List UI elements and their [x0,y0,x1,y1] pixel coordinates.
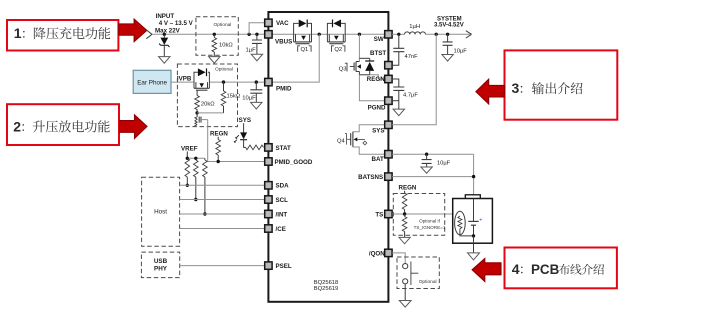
pin TS [385,210,392,217]
svg-text:/CE: /CE [276,226,286,233]
svg-text:SW: SW [374,36,384,43]
svg-text:REGN: REGN [399,185,417,192]
resistor pullup SDA [185,158,190,177]
node SW tap for Q3 [358,33,361,36]
svg-text:STAT: STAT [276,145,291,152]
svg-text:PMID_GOOD: PMID_GOOD [275,159,313,166]
pin CE [265,225,272,232]
svg-text:10µF: 10µF [454,49,468,55]
ground under TS [399,237,410,243]
pin STAT [265,144,272,151]
optional dashed box (earphone FET) [177,64,237,127]
svg-text:VREF: VREF [181,145,198,152]
svg-text:3: 3 [512,80,520,96]
resistor 15k [223,82,225,91]
optional dashed box TS [393,194,444,236]
svg-text:PCB: PCB [531,262,560,277]
node: REGN on PMID_GOOD [217,160,220,163]
svg-text:/QON: /QON [369,250,385,257]
ground under BAT cap [421,167,432,173]
node: 20k/15k rail [195,111,198,114]
svg-text:Ear Phone: Ear Phone [137,79,167,86]
optional box (10k) [196,17,238,55]
capacitor 4.7uF (REGN) [392,79,399,87]
callout box 1 [7,20,118,51]
wire M2 to PMID_GOOD [208,120,265,162]
node: VAC riser [247,33,250,36]
pin REGN [385,75,392,82]
ground under system cap [442,55,453,62]
input connector chevron [146,30,152,34]
svg-text:TS_IGNORE=1: TS_IGNORE=1 [414,225,446,230]
resistor 20k [196,90,198,95]
wire: input line to VBUS [152,33,265,35]
svg-text:USB: USB [154,258,168,265]
node Q1/Q2 mid [318,33,321,36]
pin INT [265,210,272,217]
QON pushbutton [392,253,405,264]
svg-text:INPUT: INPUT [156,13,175,20]
svg-text:Q4: Q4 [337,139,346,145]
svg-text:10kΩ: 10kΩ [219,43,233,49]
svg-text:3.5V-4.52V: 3.5V-4.52V [434,22,464,28]
transistor Q3 with bootstrap diode [358,34,360,61]
svg-text:PHY: PHY [154,265,168,272]
callout arrow 1 [119,19,147,41]
svg-text:VAC: VAC [276,20,289,27]
svg-text:TS: TS [375,211,383,218]
pin PSEL [265,262,272,269]
ground under battery [473,243,475,253]
node: TVS tap [163,33,166,36]
svg-text:10µF: 10µF [437,161,451,167]
capacitor 1uF [256,34,258,40]
svg-text:2: 2 [13,118,21,134]
ground under QON [399,301,411,308]
svg-text:BATSNS: BATSNS [358,174,383,181]
USB PHY box [141,252,179,278]
svg-text:4 V – 13.5 V: 4 V – 13.5 V [159,20,194,27]
svg-text:20kΩ: 20kΩ [201,101,215,107]
PMID line to pin [209,81,264,83]
svg-text:+: + [479,217,482,223]
pin VBUS [265,31,272,38]
svg-text:SDA: SDA [276,183,290,190]
wire system rail down to SYS pin [392,34,436,125]
BAT wire + 10uF [392,153,474,155]
pin QON [385,249,392,256]
node SYS rail taps [435,33,438,36]
svg-text:BTST: BTST [370,50,386,57]
transistor Q1 [294,23,299,34]
pin SDA [265,182,272,189]
wire Q3 to PGND pin [359,75,385,101]
wire inductor to system arrow [426,33,471,35]
ground under TVS [159,57,170,64]
svg-text:/INT: /INT [276,211,288,218]
svg-text:4.7µF: 4.7µF [403,92,418,98]
thermistor [455,211,466,235]
svg-text:REGN: REGN [367,76,385,83]
resistor TS lower [404,214,406,217]
svg-text:SYS: SYS [239,117,251,124]
wire PGND to ground [392,100,399,102]
svg-text:Optional: Optional [214,22,232,28]
resistor 10k [213,34,215,37]
transistor M2 (small) [196,113,198,117]
resistor pullup SCL [194,160,199,177]
pin BATSNS [385,173,392,180]
svg-text:Q1: Q1 [301,47,309,53]
pin PGND [385,97,392,104]
callout box 2 [7,104,119,145]
svg-text:SCL: SCL [276,197,289,204]
PMID 10uF cap [255,80,258,83]
callout arrow 3 [476,79,505,104]
transistor M1 (IVPB PFET) [194,72,198,82]
svg-text:VBUS: VBUS [275,39,292,46]
svg-text:IVPB: IVPB [177,75,192,82]
svg-text:Optional if: Optional if [419,219,440,224]
wire USB PHY to PSEL [180,265,265,267]
svg-text:47nF: 47nF [405,54,419,60]
pin BAT [385,151,392,158]
resistor pullup INT [204,158,206,160]
svg-text:4: 4 [512,261,520,277]
capacitor 10uF (system) [447,34,449,42]
TVS diode D1 [160,38,168,45]
svg-text:Host: Host [154,208,167,215]
svg-text:Optional: Optional [215,67,233,73]
svg-text:Q3: Q3 [339,66,347,72]
svg-text:PMID: PMID [276,86,292,93]
svg-text:1: 1 [14,25,22,41]
svg-text:PGND: PGND [368,104,386,111]
node: 10k tap [213,33,216,36]
callout arrow 4 [472,259,501,282]
Host box [142,177,180,246]
battery pack [465,195,480,199]
pin SCL [265,196,272,203]
svg-text:REGN: REGN [210,131,228,138]
svg-text:Optional: Optional [419,279,437,285]
pin PMID [265,78,272,85]
svg-text:1µF: 1µF [246,47,257,53]
pin BTST [385,62,392,69]
wire mid to PMID [268,34,319,82]
svg-text:15kΩ: 15kΩ [227,93,241,99]
ground under 10k [209,57,220,64]
battery cell [473,199,475,222]
SW node + inductor 1uH [392,33,404,35]
Ear Phone box [133,70,171,93]
svg-text:BQ25618: BQ25618 [314,280,339,286]
svg-text:10µF: 10µF [242,95,256,101]
ground PGND/REGN [393,109,404,116]
wires host to pins [180,184,265,186]
BATSNS wire [392,176,474,178]
pin VAC [265,19,272,26]
transistor Q2 [327,23,333,34]
wire earphone to IVPB [171,81,194,83]
wire BAT down to battery [473,154,475,195]
node: 15k tap on PMID [222,80,225,83]
svg-text:BAT: BAT [372,156,384,163]
svg-text:1µH: 1µH [409,24,420,30]
wire VBUS to SW internal [268,33,385,35]
callout arrow 2 [120,115,147,138]
wire to VAC pin [249,23,265,35]
svg-text:PSEL: PSEL [276,263,292,270]
transistor Q4 [353,125,385,132]
wire Q3 to REGN pin [370,75,385,79]
svg-text:Q2: Q2 [334,47,342,53]
ground under PMID cap [251,102,262,109]
capacitor 47nF (BTST) [398,34,400,48]
svg-text:SYS: SYS [372,127,384,134]
svg-text:BQ25619: BQ25619 [314,286,339,292]
callout box 3 [505,50,618,119]
node: 1uF tap [255,33,258,36]
pin SYS [385,121,392,128]
op-amp U1 BQ25618 IC body [268,12,388,302]
svg-text:Max 22V: Max 22V [155,27,181,34]
ground under 1uF [251,54,262,61]
pin PMID_GOOD [265,158,272,165]
callout box 4 [505,248,617,289]
pin SW [385,31,392,38]
